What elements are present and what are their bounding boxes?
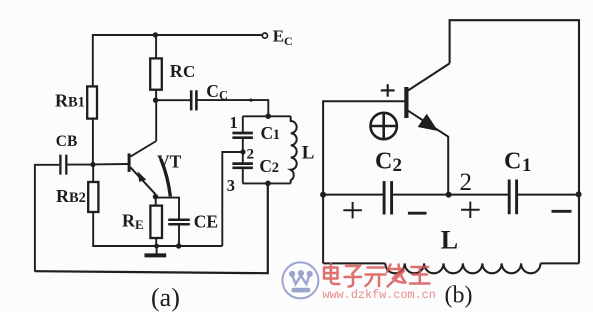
watermark text dianzi kaifa wang xyxy=(324,264,430,287)
svg-text:2: 2 xyxy=(272,160,279,176)
wire RE top lead xyxy=(155,197,157,206)
svg-text:R: R xyxy=(122,211,136,231)
node right rail junction (b) xyxy=(576,191,582,197)
node collector-CC junction xyxy=(153,98,158,103)
svg-text:R: R xyxy=(170,61,184,81)
wire middle rail center (b) xyxy=(393,194,509,196)
transistor (b) base bar xyxy=(404,87,408,118)
capacitor C2 (b) xyxy=(384,181,392,214)
svg-text:2: 2 xyxy=(393,155,403,176)
caption (b) xyxy=(445,283,473,309)
svg-text:C: C xyxy=(261,123,274,143)
terminal EC circle xyxy=(262,33,267,38)
node tank top junction xyxy=(265,113,271,119)
label L (b) xyxy=(441,226,458,255)
wire collector vertical xyxy=(155,100,157,141)
wire RB2 bottom lead xyxy=(93,212,222,246)
wire base rail (b) xyxy=(323,101,404,263)
capacitor CC xyxy=(191,90,196,110)
svg-text:1: 1 xyxy=(273,127,280,143)
wire top rail (b) xyxy=(450,20,579,263)
node left rail junction (b) xyxy=(320,192,326,198)
transistor VT emitter lead xyxy=(131,167,156,196)
node emitter junction xyxy=(153,194,158,199)
label minus right of C2 xyxy=(408,212,427,215)
svg-text:C: C xyxy=(504,149,521,175)
inductor L (b) xyxy=(385,263,540,273)
wire tank left upper xyxy=(242,116,244,131)
wire bottom feedback (a) xyxy=(35,183,268,273)
wire tank left lower xyxy=(242,169,244,184)
svg-text:1: 1 xyxy=(522,155,532,176)
label + at base xyxy=(381,84,395,97)
wire top rail (a) xyxy=(93,35,262,87)
wire RB2 top lead xyxy=(92,165,94,183)
svg-text:L: L xyxy=(302,142,315,163)
svg-text:CE: CE xyxy=(194,211,218,231)
resistor RC xyxy=(150,58,162,89)
resistor RE xyxy=(150,206,162,238)
svg-text:C: C xyxy=(259,156,272,176)
label pin 2 xyxy=(247,146,255,162)
label + left of C1 xyxy=(461,202,480,218)
transistor VT base bar xyxy=(128,153,131,172)
label RB2 xyxy=(56,186,86,206)
transistor (b) emitter arrow xyxy=(418,114,438,131)
node CE ground junction xyxy=(176,243,181,248)
label minus right of C1 xyxy=(552,210,572,213)
transistor VT emitter arrow xyxy=(138,171,147,182)
svg-text:2: 2 xyxy=(247,146,255,162)
wire node2 to ground rail xyxy=(222,152,243,246)
transistor (b) collector lead xyxy=(408,63,450,90)
label pin 3 xyxy=(227,176,235,195)
wire base lead xyxy=(93,163,128,165)
transistor VT collector lead xyxy=(131,141,157,157)
svg-text:www.dzkfw.com.cn: www.dzkfw.com.cn xyxy=(323,288,436,302)
node junction top RC xyxy=(153,32,158,37)
label L (a) xyxy=(302,142,315,163)
wire CB right lead xyxy=(67,164,93,166)
wire CE bottom lead xyxy=(178,226,180,247)
inductor L (a) xyxy=(291,116,297,183)
wire tank left mid1 xyxy=(242,139,244,152)
svg-text:(a): (a) xyxy=(151,283,180,312)
resistor RB1 xyxy=(87,86,97,118)
stray stroke below VT xyxy=(161,160,170,197)
svg-text:L: L xyxy=(441,226,458,255)
node 2 (b) xyxy=(446,192,452,198)
svg-text:2: 2 xyxy=(460,169,473,196)
capacitor CB xyxy=(60,155,66,175)
caption (a) xyxy=(151,283,180,312)
label CB xyxy=(56,133,78,150)
wire tank top rail xyxy=(243,115,291,117)
wire emitter to CE xyxy=(156,198,179,219)
svg-text:B2: B2 xyxy=(69,190,86,206)
label EC xyxy=(273,26,293,48)
wire tank left mid2 xyxy=(242,152,244,163)
node 2 (a) xyxy=(240,149,245,154)
svg-text:3: 3 xyxy=(227,176,235,195)
svg-text:C: C xyxy=(206,81,219,101)
wire RC top lead xyxy=(155,35,157,58)
capacitor C1 (a) xyxy=(232,133,253,138)
wire RB1 bottom lead xyxy=(92,119,94,165)
label C2 (b) xyxy=(375,149,402,177)
svg-text:C: C xyxy=(183,62,195,81)
wire CC right lead xyxy=(198,100,269,116)
watermark logo circle xyxy=(282,262,318,298)
label 2 (b) xyxy=(460,169,473,196)
wire CC left lead xyxy=(156,99,190,101)
label RC xyxy=(170,61,195,81)
svg-text:(b): (b) xyxy=(445,283,473,309)
svg-text:C: C xyxy=(284,34,293,48)
label pin 1 xyxy=(230,113,238,132)
resistor RB2 xyxy=(88,182,98,212)
label VT xyxy=(157,151,182,171)
label CC xyxy=(206,81,228,103)
node tank bottom junction xyxy=(265,181,271,187)
label C1 (b) xyxy=(504,149,532,177)
wire RE bottom lead xyxy=(155,238,157,246)
capacitor C1 (b) xyxy=(509,180,516,215)
wire bottom right (b) xyxy=(541,262,580,264)
node base junction xyxy=(90,162,95,167)
label RE xyxy=(122,211,144,233)
node blob on CC wire xyxy=(249,99,252,102)
svg-text:B1: B1 xyxy=(68,95,85,111)
label C1 (a) xyxy=(261,123,281,143)
wire CB left lead xyxy=(35,165,59,272)
svg-text:CB: CB xyxy=(56,133,78,150)
capacitor C2 (a) xyxy=(232,164,253,168)
node RE-ground junction xyxy=(154,244,159,249)
svg-text:E: E xyxy=(273,26,284,45)
wire RC bottom lead xyxy=(155,90,157,101)
label RB1 xyxy=(55,91,85,111)
svg-text:1: 1 xyxy=(230,113,238,132)
wire middle rail right (b) xyxy=(518,194,579,196)
label + left of C2 xyxy=(343,202,362,218)
label C2 (a) xyxy=(259,156,279,176)
wire tank bottom rail xyxy=(243,182,291,184)
wire middle rail left (b) xyxy=(323,194,383,196)
svg-text:C: C xyxy=(375,149,392,175)
wire bottom left (b) xyxy=(323,262,385,264)
transistor (b) emitter lead xyxy=(408,111,448,195)
symbol circled plus xyxy=(371,113,397,139)
svg-text:E: E xyxy=(135,217,144,232)
svg-text:R: R xyxy=(56,186,70,206)
ground xyxy=(145,246,167,255)
label CE xyxy=(194,211,218,231)
watermark W glyph xyxy=(292,275,310,285)
capacitor CE xyxy=(168,220,190,224)
svg-text:R: R xyxy=(55,91,69,111)
